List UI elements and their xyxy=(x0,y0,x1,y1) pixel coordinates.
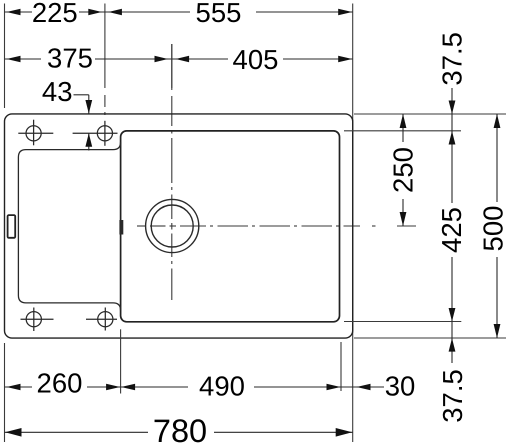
wire right-side extension basin bottom y=321.2 xyxy=(344,321,461,323)
faucet hole H1 top-left xyxy=(18,120,53,146)
svg-text:555: 555 xyxy=(196,0,242,28)
svg-text:43: 43 xyxy=(42,76,73,107)
svg-text:490: 490 xyxy=(199,370,245,401)
dimension row2 line y=59 xyxy=(5,58,353,60)
drainer channel slot on left edge xyxy=(8,215,16,238)
svg-text:250: 250 xyxy=(387,147,418,193)
svg-text:260: 260 xyxy=(37,367,83,398)
svg-text:375: 375 xyxy=(47,43,93,74)
faucet hole H4 bottom-right xyxy=(86,308,117,331)
dimension 43 leader xyxy=(74,95,89,151)
wire right-side extension sink top y=114 xyxy=(354,113,506,115)
dimension 500 column x=497 xyxy=(496,114,498,338)
drainer tray outline xyxy=(18,142,120,310)
dimension row4 line y=387 xyxy=(5,386,385,388)
node centerline hole2 x=104.9 xyxy=(104,4,106,116)
dimension 37.5 top / 425 column x=452 xyxy=(451,88,453,363)
basin bowl 490x425 xyxy=(121,131,340,322)
node centerline drain vertical x=171.8 xyxy=(171,44,173,300)
overflow tick on basin left edge xyxy=(119,220,123,235)
drain hole circles xyxy=(146,199,199,252)
svg-text:37.5: 37.5 xyxy=(437,32,468,86)
dimension 250 column x=403 xyxy=(402,114,404,226)
wire bottom extension basin right x=341 xyxy=(340,342,342,391)
svg-text:405: 405 xyxy=(233,44,279,75)
dimension row1 line y=12 xyxy=(5,11,353,13)
faucet hole H2 top-right xyxy=(97,121,112,146)
svg-text:500: 500 xyxy=(477,206,508,252)
svg-text:425: 425 xyxy=(436,207,467,253)
wire right-side extension sink bottom y=338 xyxy=(354,337,506,339)
svg-text:37.5: 37.5 xyxy=(437,369,468,423)
wire right-side extension basin top y=130.8 xyxy=(344,130,461,132)
dimension row5 780 line y=432.3 xyxy=(5,431,353,433)
sink outer rim 780x500 xyxy=(5,114,353,338)
wire bottom extension basin left x=120.6 xyxy=(120,329,122,393)
svg-text:225: 225 xyxy=(32,0,78,28)
faucet hole H3 bottom-left xyxy=(21,308,54,332)
extension line 43 lower ref / H2 crosshair xyxy=(73,132,118,134)
wire extension line left x=4.5 xyxy=(4,4,6,109)
node centerline drain horizontal y=226 xyxy=(137,225,416,227)
svg-text:780: 780 xyxy=(153,413,207,445)
wire extension line right x=352.7 xyxy=(352,4,354,443)
svg-text:30: 30 xyxy=(385,371,416,402)
